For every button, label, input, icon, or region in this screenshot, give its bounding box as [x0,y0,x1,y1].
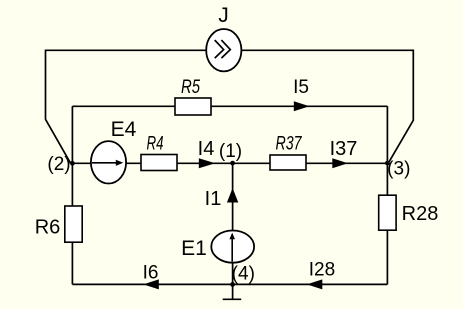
wire bottom [72,283,387,285]
svg-text:R37: R37 [276,134,303,155]
wire (1) down through E1 to (4) [232,163,234,284]
node (2) [70,161,75,166]
svg-text:E1: E1 [181,237,207,260]
node (1) [230,161,235,166]
svg-text:R28: R28 [402,203,439,225]
node (4) [230,282,235,287]
current source J [206,29,241,71]
current arrow I37 [332,158,348,168]
wire right column [386,106,388,284]
svg-text:R6: R6 [35,217,61,239]
resistor R28 [379,195,396,230]
wire (1) to (3) [233,162,388,164]
resistor R37 [270,155,306,170]
svg-text:I6: I6 [143,263,159,284]
svg-text:E4: E4 [111,118,137,141]
current arrow I28 leftward [307,279,323,289]
svg-text:(4): (4) [232,264,255,285]
svg-text:(2): (2) [47,154,70,175]
resistor R4 [141,155,177,171]
resistor R6 [65,206,82,242]
wire outer loop (2) up-left, top, down-right to (3) [46,50,414,163]
current arrow I5 [294,101,310,111]
svg-text:R5: R5 [181,77,200,98]
ground [232,284,234,299]
svg-text:I28: I28 [309,260,335,281]
svg-text:(3): (3) [387,159,410,180]
wire (2) to (1) [72,162,232,164]
node (3) [385,161,390,166]
svg-text:J: J [218,4,229,27]
current arrow I6 leftward [143,279,159,289]
current arrow I4 [199,158,216,168]
svg-text:R4: R4 [147,134,164,155]
svg-text:(1): (1) [219,141,242,162]
svg-text:I5: I5 [293,77,309,98]
svg-text:I37: I37 [330,138,358,160]
wire R5 branch horizontal [72,105,387,107]
voltage source E4 [91,141,126,183]
svg-text:I4: I4 [198,138,215,160]
resistor R5 [175,98,211,115]
svg-text:I1: I1 [205,188,222,210]
current arrow I1 upward [227,188,238,203]
voltage source E1 [211,231,254,263]
wire left column [71,106,73,284]
